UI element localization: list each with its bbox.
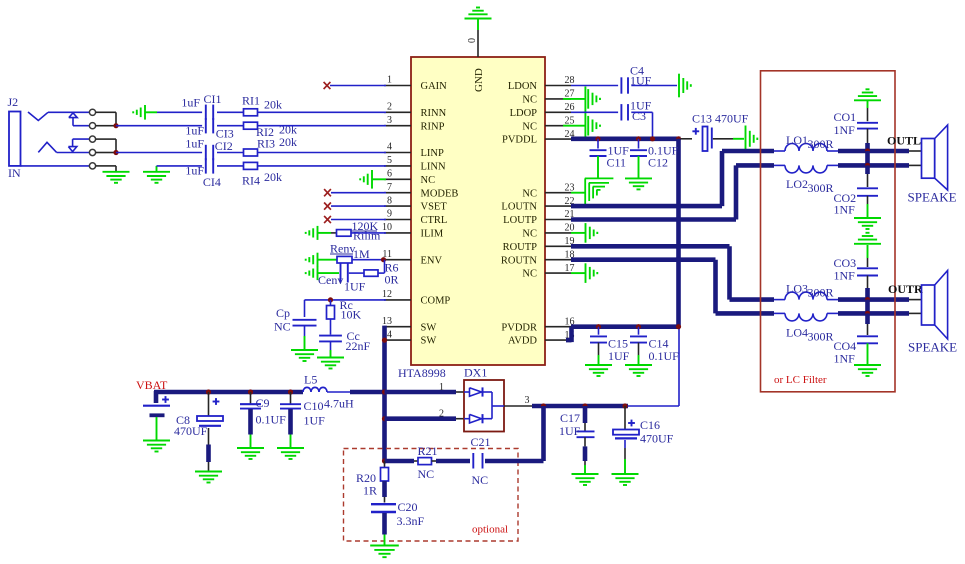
wire AVDD pin15 stub (thick) [566, 327, 572, 342]
svg-text:1NF: 1NF [834, 203, 856, 217]
svg-text:IN: IN [8, 166, 21, 180]
capacitor C21 NC [471, 435, 491, 487]
node label OUTL [887, 134, 921, 148]
inductor LO3 300R [785, 282, 834, 300]
wire C3 to PVDDL node [631, 112, 652, 139]
IC left pin stub wires [384, 86, 411, 341]
svg-text:NC: NC [522, 188, 537, 199]
wire LO2 to OUTL (thick) [827, 164, 922, 166]
capacitor C20 3.3nF [371, 500, 425, 545]
svg-text:1: 1 [387, 75, 392, 86]
no-connect mark pin7 [324, 189, 331, 196]
ground (C8) [195, 472, 222, 483]
svg-text:LINN: LINN [421, 162, 446, 173]
inductor L5 4.7uH [303, 373, 354, 411]
junction C10 [288, 389, 293, 394]
wire CI1 row [157, 111, 244, 113]
resistor Rc 10K [327, 298, 362, 322]
junction PVDDL-C12 [636, 136, 641, 141]
capacitor CI2 1uF [185, 137, 232, 161]
wire pin28 LDON to C4 [571, 85, 618, 87]
speaker OUTR [908, 271, 957, 355]
svg-text:1NF: 1NF [834, 123, 856, 137]
IC pin name GND (rotated) [473, 68, 485, 92]
capacitor CO4 1NF [834, 313, 879, 365]
svg-text:0: 0 [467, 38, 478, 43]
svg-text:VSET: VSET [421, 202, 448, 213]
ground (inverted, CO1) [854, 89, 881, 100]
svg-text:CO1: CO1 [834, 110, 857, 124]
wire pin26 LDOP to C3 [571, 111, 618, 113]
svg-text:L5: L5 [304, 373, 317, 387]
svg-text:1: 1 [439, 382, 444, 393]
wire SW bus (thick vertical) [382, 326, 387, 461]
wire pin12 COMP [305, 300, 387, 317]
svg-text:20k: 20k [279, 135, 297, 149]
svg-text:1uF: 1uF [181, 96, 200, 110]
svg-text:2: 2 [439, 409, 444, 420]
svg-text:300R: 300R [808, 329, 834, 343]
wire C21 to node3 leg (thick) [485, 459, 544, 464]
svg-text:1UF: 1UF [559, 424, 581, 438]
ground (C14) [625, 365, 652, 376]
junction SW node / VBAT-L5 [382, 389, 387, 394]
wire green rail pins27-25 [584, 87, 586, 139]
svg-text:OUTL: OUTL [887, 134, 921, 148]
ground (Cp) [291, 350, 318, 361]
svg-text:470UF: 470UF [174, 424, 208, 438]
ground (jack sleeve) [103, 172, 130, 183]
ground (VBAT cap) [143, 441, 170, 452]
wire Rilim to pin10 [351, 232, 386, 234]
no-connect mark pin9 [324, 216, 331, 223]
junction OUTL bottom [865, 163, 870, 168]
svg-text:1NF: 1NF [834, 352, 856, 366]
wire RI4 to pin5 [258, 165, 387, 167]
svg-text:NC: NC [421, 175, 436, 186]
ground (sideways, Renv) [306, 253, 337, 267]
wire Renv to pin11 ENV [352, 259, 386, 261]
wire Cenv to R6 [349, 272, 364, 274]
svg-text:10K: 10K [341, 308, 362, 322]
svg-text:R21: R21 [418, 444, 438, 458]
speaker OUTL [908, 125, 957, 205]
capacitor C8 470UF [174, 392, 223, 471]
resistor Renv 1M [330, 242, 370, 263]
capacitor C11 1UF [590, 139, 630, 178]
inductor LO2 300R [785, 165, 834, 194]
optional snubber dashed box [344, 449, 519, 542]
IC right pin stub wires [545, 86, 571, 341]
svg-text:NC: NC [472, 473, 489, 487]
IC left pin names [421, 81, 459, 347]
junction OUTL top [865, 148, 870, 153]
svg-text:RI1: RI1 [242, 94, 260, 108]
ground (C10) [277, 448, 304, 459]
capacitor CO1 1NF [834, 100, 879, 151]
junction node3-C17 [582, 403, 587, 408]
left pin numbers 1-14 [382, 75, 392, 341]
svg-text:1uF: 1uF [185, 124, 204, 138]
resistor RI4 20k [242, 162, 282, 187]
junction PVDDL-C3 [650, 136, 655, 141]
wire pin9 [331, 219, 386, 221]
wire pin24 PVDDL rail (thick) [571, 137, 681, 142]
label HTA8998 [398, 366, 446, 380]
ground (C20) [370, 546, 399, 558]
capacitor C12 0.1UF [630, 139, 679, 178]
connector pads (5 circles) [89, 109, 101, 169]
svg-text:C21: C21 [471, 435, 491, 449]
connector J2 audio jack [8, 95, 90, 180]
svg-text:26: 26 [565, 102, 575, 113]
svg-text:4: 4 [387, 142, 392, 153]
capacitor Cp NC [274, 306, 317, 350]
wire bus to DX1 pin2 [385, 409, 465, 420]
ground (sideways, pin20) [586, 223, 598, 243]
junction bus-R21 row [382, 458, 387, 463]
ground (CO2) [854, 218, 881, 229]
svg-text:C16: C16 [640, 418, 660, 432]
wire pin1 GAIN [330, 85, 386, 87]
svg-text:PVDDL: PVDDL [502, 135, 537, 146]
svg-text:1R: 1R [363, 484, 377, 498]
resistor RI2 20k [244, 122, 298, 139]
wire RI1 to pin2 [258, 111, 387, 113]
wire PVDD vertical bus (thick) [676, 139, 681, 327]
svg-text:CI4: CI4 [203, 175, 221, 189]
svg-text:NC: NC [522, 95, 537, 106]
right pin numbers 15-28 [565, 75, 575, 341]
svg-text:10: 10 [382, 222, 392, 233]
no-connect mark pin1 [324, 82, 331, 89]
ground (inverted, CO3) [854, 233, 881, 244]
svg-text:LINP: LINP [421, 148, 444, 159]
wire R-channel input to junction [101, 112, 116, 125]
junction node3-C21leg [541, 403, 546, 408]
svg-text:NC: NC [522, 269, 537, 280]
svg-text:5: 5 [387, 155, 392, 166]
capacitor CI3 1uF [185, 118, 233, 141]
svg-text:Rilim: Rilim [353, 229, 381, 243]
svg-text:12: 12 [382, 289, 392, 300]
svg-text:C9: C9 [256, 396, 270, 410]
junction OUTR bottom [865, 311, 870, 316]
inductor LO1 300R [785, 133, 834, 151]
wire OUTR link (thick) [865, 300, 870, 314]
wire DX1 out node 3 [504, 395, 532, 406]
svg-text:LOUTN: LOUTN [501, 202, 537, 213]
capacitor C3 1UF [621, 99, 651, 124]
wire L-channel input to junction [101, 139, 116, 152]
ground (CO4) [854, 365, 881, 376]
resistor R20 1R [356, 461, 389, 503]
ground (top, above IC) [465, 8, 492, 19]
svg-text:LO1: LO1 [786, 133, 808, 147]
ground (C9) [237, 448, 264, 459]
capacitor C17 1UF [559, 406, 595, 474]
power flag VBAT [136, 378, 168, 392]
junction OUTR top [865, 297, 870, 302]
svg-text:300R: 300R [808, 285, 834, 299]
svg-text:LDON: LDON [508, 81, 538, 92]
wire CI2 row [116, 152, 244, 154]
svg-text:9: 9 [387, 209, 392, 220]
wire LO4 to OUTR (thick) [827, 312, 922, 314]
svg-text:470UF: 470UF [640, 432, 674, 446]
junction PVDDR-PVDD bus [676, 324, 681, 329]
wire LOUTP pin21 to LO2 (thick) [571, 165, 785, 219]
svg-text:7: 7 [387, 182, 392, 193]
svg-text:8: 8 [387, 195, 392, 206]
capacitor CI1 1uF [181, 92, 221, 120]
svg-text:3: 3 [387, 115, 392, 126]
svg-text:LOUTP: LOUTP [503, 215, 537, 226]
svg-text:SW: SW [421, 322, 437, 333]
wire RI2 to pin3 [258, 125, 387, 127]
wire pin27 to ground rail [563, 98, 585, 100]
ground (sideways, C4) [679, 74, 691, 98]
wire pin23 to ground [571, 192, 585, 194]
svg-text:1UF: 1UF [304, 414, 326, 428]
wire R6 to ENV node [378, 260, 385, 273]
node label OUTR [888, 282, 923, 296]
wire LO3 to OUTR (thick) [827, 299, 922, 301]
wire PVDD node (thick) [532, 327, 679, 406]
svg-text:28: 28 [565, 75, 575, 86]
svg-text:NC: NC [522, 229, 537, 240]
capacitor C16 470UF [613, 406, 674, 474]
junction PVDDL-C11 [595, 136, 600, 141]
svg-text:4.7uH: 4.7uH [324, 397, 354, 411]
capacitor C15 1UF [590, 327, 630, 365]
svg-text:NC: NC [274, 320, 291, 334]
wire LO1 to OUTL (thick) [827, 150, 922, 152]
ground (sideways, pin27) [588, 89, 600, 109]
svg-text:1uF: 1uF [185, 164, 204, 178]
svg-text:C20: C20 [398, 500, 418, 514]
wire R21 to C21 (thick) [432, 460, 471, 462]
wire ROUTN pin18 to LO4 (thick) [571, 260, 785, 314]
junction C8 [206, 389, 211, 394]
svg-text:optional: optional [472, 524, 508, 536]
svg-text:SPEAKE: SPEAKE [908, 340, 957, 355]
ground (C15) [585, 365, 612, 376]
wire sleeve to ground [101, 166, 116, 172]
svg-text:2: 2 [387, 102, 392, 113]
svg-text:20k: 20k [264, 98, 282, 112]
svg-text:AVDD: AVDD [508, 336, 537, 347]
ground (nested-corner, C11/pin23) [585, 178, 614, 204]
junction node LIN [113, 150, 118, 155]
capacitor CO3 1NF [834, 245, 879, 300]
svg-text:1NF: 1NF [834, 269, 856, 283]
svg-text:C17: C17 [560, 411, 580, 425]
wire CI3 row [116, 125, 244, 127]
resistor R6 0R [364, 261, 399, 287]
capacitor Cc 22nF [319, 319, 370, 357]
ground (sideways, Cenv) [306, 266, 339, 280]
svg-text:C3: C3 [632, 109, 646, 123]
capacitor C10 1UF [280, 392, 325, 448]
ground (Cc) [317, 358, 344, 369]
capacitor Cenv 1UF [318, 263, 366, 294]
svg-text:CI2: CI2 [215, 139, 233, 153]
svg-text:C11: C11 [607, 156, 627, 170]
svg-text:LO3: LO3 [786, 282, 808, 296]
junction PVDDR-C15 [596, 324, 601, 329]
wire CI4 row [157, 165, 244, 167]
svg-text:MODEB: MODEB [421, 188, 459, 199]
capacitor CO2 1NF [834, 165, 879, 217]
svg-text:1UF: 1UF [344, 280, 366, 294]
svg-text:COMP: COMP [421, 296, 451, 307]
capacitor CI4 1uF [185, 158, 221, 189]
svg-text:0R: 0R [385, 273, 399, 287]
svg-text:RINP: RINP [421, 121, 445, 132]
svg-text:1uF: 1uF [185, 137, 204, 151]
svg-text:Cp: Cp [276, 306, 290, 320]
svg-text:Cenv: Cenv [318, 273, 343, 287]
svg-text:C10: C10 [304, 399, 324, 413]
ground (C17) [572, 474, 599, 485]
svg-text:22nF: 22nF [346, 339, 371, 353]
svg-text:GND: GND [473, 68, 485, 92]
svg-text:300R: 300R [808, 181, 834, 195]
svg-text:J2: J2 [8, 95, 19, 109]
IC right pin names [501, 81, 538, 347]
svg-text:1UF: 1UF [608, 349, 630, 363]
svg-text:ENV: ENV [421, 255, 443, 266]
svg-text:3.3nF: 3.3nF [397, 514, 425, 528]
wire bus to R21 (thick) [385, 459, 419, 464]
wire LOUTN pin22 to LO1 (thick) [571, 151, 785, 206]
junction node ENV [381, 257, 386, 262]
svg-text:DX1: DX1 [464, 366, 487, 380]
junction C9 [248, 389, 253, 394]
svg-text:3: 3 [525, 395, 530, 406]
svg-text:or LC Filter: or LC Filter [774, 374, 827, 386]
svg-text:RI4: RI4 [242, 174, 260, 188]
wire pin8 [331, 205, 386, 207]
wire ROUTP pin19 to LO3 (thick) [571, 246, 785, 299]
svg-text:LO4: LO4 [786, 326, 808, 340]
svg-text:20k: 20k [264, 170, 282, 184]
svg-text:RI3: RI3 [257, 137, 275, 151]
ground (sideways, pin17) [586, 263, 598, 283]
svg-text:LO2: LO2 [786, 177, 808, 191]
svg-text:LDOP: LDOP [510, 108, 538, 119]
svg-text:1M: 1M [353, 247, 370, 261]
op-amp/amplifier IC U1 HTA8998 body [411, 57, 545, 365]
capacitor C4 1UF [621, 64, 651, 94]
ground (C16) [612, 474, 639, 485]
svg-text:C12: C12 [648, 156, 668, 170]
capacitor C14 0.1UF [630, 327, 679, 365]
wire pin16 PVDDR rail (thick) [571, 324, 679, 329]
capacitor C9 0.1UF [240, 392, 286, 448]
wire VBAT rail [154, 391, 385, 403]
svg-text:0.1UF: 0.1UF [649, 349, 680, 363]
svg-text:ROUTP: ROUTP [503, 242, 538, 253]
svg-text:SW: SW [421, 336, 437, 347]
junction node3-C16 [622, 403, 627, 408]
resistor R21 NC [418, 444, 438, 481]
svg-text:0.1UF: 0.1UF [256, 413, 287, 427]
diode pack DX1 [464, 366, 504, 432]
junction DX1 pin2 tap [382, 416, 387, 421]
svg-text:PVDDR: PVDDR [501, 322, 537, 333]
junction PVDDL-PVDD bus [676, 136, 681, 141]
wire L5 node to DX1 pin1 [385, 382, 465, 393]
svg-text:HTA8998: HTA8998 [398, 366, 446, 380]
svg-text:SPEAKE: SPEAKE [908, 190, 957, 205]
wire C4 to ground [631, 85, 677, 87]
ground (CI4 return) [143, 166, 170, 183]
svg-text:CTRL: CTRL [421, 215, 448, 226]
LC filter box [761, 71, 896, 392]
capacitor C13 470UF [681, 112, 749, 152]
resistor Rilim 120K [331, 219, 381, 243]
svg-text:NC: NC [522, 121, 537, 132]
ground (C12) [625, 178, 652, 189]
ground (sideways, RINN bias) [133, 105, 157, 120]
svg-text:RINN: RINN [421, 108, 447, 119]
svg-text:CI1: CI1 [204, 92, 222, 106]
junction node RIN [113, 123, 118, 128]
svg-text:ILIM: ILIM [421, 229, 444, 240]
junction SW/pin14 [382, 338, 387, 343]
label 0 (GND pin number) [467, 38, 478, 43]
wire RI3 to pin4 [258, 152, 387, 154]
wire pin7 [331, 192, 386, 194]
inductor LO4 300R [785, 313, 834, 343]
no-connect mark pin8 [324, 203, 331, 210]
wire pin20 to ground [571, 232, 585, 234]
svg-text:C13 470UF: C13 470UF [692, 112, 749, 126]
battery/reservoir cap at VBAT [143, 396, 170, 440]
svg-text:13: 13 [382, 316, 392, 327]
junction node COMP [328, 297, 333, 302]
ground (sideways, C13) [746, 126, 758, 153]
svg-text:ROUTN: ROUTN [501, 255, 538, 266]
svg-text:27: 27 [565, 89, 575, 100]
wire pin17 to ground [571, 272, 585, 274]
wire node3 down to C21 (thick) [541, 406, 546, 461]
resistor RI1 20k [242, 94, 282, 116]
svg-text:OUTR: OUTR [888, 282, 923, 296]
ground (sideways, pin6 NC) [360, 170, 386, 189]
ground (sideways, Rilim) [306, 226, 331, 240]
wire pin25 to ground rail [563, 125, 585, 127]
ground (sideways, pin25) [588, 116, 600, 136]
svg-text:6: 6 [387, 169, 392, 180]
junction PVDDR-C14 [636, 324, 641, 329]
svg-text:GAIN: GAIN [421, 81, 448, 92]
svg-text:NC: NC [418, 467, 435, 481]
svg-text:300R: 300R [808, 137, 834, 151]
wire GND pin 0 [477, 19, 479, 57]
resistor RI3 20k [244, 135, 298, 156]
wire OUTL link (thick) [865, 151, 870, 165]
